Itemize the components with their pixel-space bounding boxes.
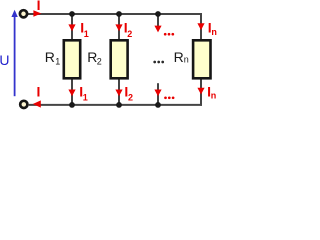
node junction bottom 1 <box>69 102 75 108</box>
svg-text:1: 1 <box>55 56 60 66</box>
svg-text:R: R <box>174 49 184 65</box>
resistor R2 <box>111 40 128 78</box>
ellipsis between R2 and Rn <box>153 61 164 64</box>
current arrow I2 bottom (down) <box>115 90 122 97</box>
label R2 <box>87 49 102 67</box>
node junction bottom 3 <box>155 102 161 108</box>
wire branch R1 bottom <box>71 79 73 105</box>
terminal top-left <box>20 10 27 17</box>
wire stub middle bottom <box>157 83 159 105</box>
terminal bottom-left <box>20 101 27 108</box>
label I1 bottom <box>79 83 88 102</box>
wire branch R2 top <box>118 14 120 40</box>
svg-text:n: n <box>184 54 189 64</box>
svg-text:2: 2 <box>128 93 133 103</box>
label ellipsis top red <box>164 33 174 36</box>
current arrow I bottom (left, exit) <box>33 100 41 107</box>
svg-text:R: R <box>87 49 97 65</box>
wire right top corner down to Rn <box>200 13 202 40</box>
current arrow I top (right) <box>33 10 41 17</box>
current arrow dots branch bottom (down) <box>154 90 161 97</box>
wire bottom horizontal <box>29 104 202 106</box>
current arrow In top (down) <box>197 23 204 30</box>
node junction top 1 <box>69 11 75 17</box>
node junction top 3 <box>155 11 161 17</box>
label Rn <box>174 49 189 65</box>
label In bottom <box>207 84 216 101</box>
label In top <box>208 20 217 37</box>
svg-text:I: I <box>37 84 41 100</box>
resistor Rn <box>193 40 210 78</box>
wire branch R2 bottom <box>118 79 120 105</box>
svg-text:1: 1 <box>84 29 89 39</box>
svg-text:I: I <box>37 0 41 13</box>
svg-text:n: n <box>211 27 217 37</box>
current arrow I1 bottom (down) <box>68 90 75 97</box>
svg-text:R: R <box>45 49 55 65</box>
svg-text:U: U <box>0 52 10 68</box>
svg-text:2: 2 <box>127 29 132 39</box>
resistor R1 <box>64 40 80 78</box>
current arrow In bottom (down) <box>197 88 204 95</box>
label ellipsis bottom red <box>164 96 174 99</box>
svg-text:1: 1 <box>83 93 88 103</box>
label R1 <box>45 49 61 67</box>
current arrow dots branch top (down) <box>154 26 161 33</box>
node junction top 2 <box>116 11 122 17</box>
wire top horizontal <box>28 13 202 15</box>
label I1 top <box>80 20 89 40</box>
wire branch R1 top <box>71 14 73 40</box>
voltage arrow U (blue, up) <box>11 10 17 96</box>
current arrow I1 top (down) <box>68 24 75 31</box>
wire stub middle top <box>157 14 159 27</box>
wire right bottom corner up to Rn <box>200 79 202 106</box>
label I2 bottom <box>124 83 133 102</box>
node junction bottom 2 <box>116 102 122 108</box>
current arrow I2 top (down) <box>115 24 122 31</box>
svg-text:n: n <box>211 90 217 100</box>
svg-text:2: 2 <box>97 56 102 66</box>
label I2 top <box>124 20 133 40</box>
